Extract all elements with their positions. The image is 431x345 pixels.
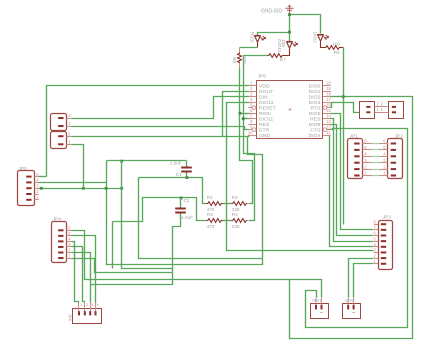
wire C2 top rail to R3 (113, 198, 207, 222)
svg-text:R5: R5 (232, 57, 237, 63)
junction C1 rail tap (120, 160, 123, 163)
JP9 pin 16 (RTS) (327, 107, 331, 109)
IC JP9 (XBee module) (257, 81, 323, 139)
svg-text:R3: R3 (207, 212, 213, 217)
wire DIO2 LED to R6 (321, 42, 325, 48)
resistor R5 (238, 53, 242, 64)
wire JP7 pin1 to DTR (72, 127, 249, 130)
svg-text:DIO2: DIO2 (309, 94, 321, 100)
svg-text:16: 16 (326, 102, 331, 107)
wire JP8 pin1 down (72, 145, 84, 189)
JP9 pin 6 (RSSI) (248, 113, 256, 115)
svg-text:2: 2 (36, 189, 39, 194)
wire JP1-JP2 row 3 (372, 162, 380, 164)
wire jumper link pins (375, 107, 389, 113)
svg-text:1: 1 (364, 171, 367, 176)
svg-text:4: 4 (68, 237, 71, 242)
svg-text:DIO1: DIO1 (309, 89, 321, 95)
wire left drop (112, 222, 114, 269)
resistor R3 (207, 219, 223, 223)
svg-text:6: 6 (364, 139, 367, 144)
svg-text:R6: R6 (334, 50, 340, 55)
wire JP5 pin3 rail (39, 188, 122, 190)
svg-text:DTR: DTR (259, 127, 270, 133)
svg-text:6: 6 (383, 139, 386, 144)
wire C1 rail down-right (139, 178, 263, 259)
wire JP1-JP2 row 1 (372, 175, 380, 177)
svg-text:1: 1 (250, 80, 253, 85)
svg-text:RSSI: RSSI (249, 32, 254, 43)
wire JP4 pin5 to JP6 pin4 (72, 236, 96, 303)
junction JP8 pin1 tap (82, 187, 85, 190)
svg-text:C2: C2 (184, 198, 190, 203)
JP9 pin 4 (DIO12) (248, 102, 256, 104)
svg-text:3: 3 (36, 183, 39, 188)
resistor R4 (232, 219, 248, 223)
svg-text:14: 14 (326, 113, 331, 118)
JP9 pin 17 (DIO3) (323, 102, 331, 104)
relay K2 (343, 304, 361, 319)
wire JP3 pin1 to K2 right (354, 264, 374, 298)
svg-text:DIO0: DIO0 (309, 83, 321, 89)
svg-text:JP1: JP1 (350, 133, 359, 139)
capacitor C2 (175, 208, 186, 214)
svg-text:6: 6 (68, 226, 71, 231)
svg-text:18: 18 (326, 91, 331, 96)
svg-text:JP2: JP2 (395, 133, 404, 139)
wire DOUT down (223, 92, 251, 137)
wire R3 to R4 (222, 220, 232, 222)
JP9 pin 2 (DOUT) (248, 91, 256, 93)
wire JP4 pin2 to JP6 pin3 (72, 253, 91, 303)
svg-text:1: 1 (68, 140, 71, 145)
svg-text:GND-ISO: GND-ISO (261, 9, 283, 15)
svg-text:13: 13 (326, 119, 331, 124)
wire R5 to RSSI pin and R2 (240, 69, 253, 204)
svg-text:G5V1: G5V1 (312, 298, 321, 302)
wire R5 bottom lead (239, 64, 241, 69)
svg-text:4: 4 (383, 152, 386, 157)
svg-text:JP3: JP3 (383, 214, 392, 220)
junction C1 riser tap (120, 187, 123, 190)
svg-text:RES: RES (259, 122, 270, 128)
connector JP1 (348, 139, 363, 179)
svg-text:3: 3 (250, 91, 253, 96)
JP9 pin 5 (RESET) (248, 107, 252, 109)
svg-text:2: 2 (377, 102, 380, 107)
wire R6 down to JP3 pin 8 (343, 48, 345, 225)
junction C1 bottom (186, 176, 189, 179)
jumper SJ1 (left pad box) (360, 102, 375, 119)
svg-text:JP9: JP9 (258, 73, 267, 79)
svg-text:DIO11: DIO11 (259, 116, 273, 122)
svg-text:R4: R4 (232, 212, 238, 217)
wire C1 bottom lead (186, 173, 188, 178)
resistor R7 (268, 54, 284, 58)
svg-text:DIO12: DIO12 (259, 100, 274, 106)
svg-text:DIO4: DIO4 (309, 133, 321, 139)
svg-text:8: 8 (250, 119, 253, 124)
wire R1 to R2 (222, 203, 232, 205)
JP9 pin 12 (CTS) (327, 129, 331, 131)
svg-text:G5V2: G5V2 (345, 298, 354, 302)
svg-text:4: 4 (364, 152, 367, 157)
svg-text:2: 2 (86, 303, 88, 307)
wire R7 to DIO11 pin and R4 (244, 56, 268, 221)
wire junction to DIO11 LED (289, 33, 291, 42)
svg-text:3: 3 (373, 248, 376, 253)
svg-text:DOUT: DOUT (259, 89, 273, 95)
wire DIO11 LED to R7 (284, 49, 290, 56)
svg-text:5: 5 (373, 236, 376, 241)
wire CTS to relay K1 left (306, 129, 408, 328)
svg-text:JP4: JP4 (53, 216, 62, 222)
wire to JP9 DIO11 pin (244, 118, 251, 120)
svg-text:10: 10 (248, 130, 253, 135)
wire JP4 pin1 rail (72, 259, 173, 273)
svg-text:6: 6 (373, 231, 376, 236)
svg-text:RESET: RESET (259, 105, 276, 111)
wire DIO2 net to relay K1 right (290, 97, 413, 339)
svg-text:JP6: JP6 (67, 314, 72, 322)
svg-text:2: 2 (68, 113, 71, 118)
JP9 pin 14 (RES) (323, 118, 331, 120)
wire C1 bottom rail to R1 (139, 178, 207, 204)
svg-text:4: 4 (250, 97, 253, 102)
wire R5 top lead (239, 48, 241, 53)
wire JP9 pin18 to DIO2 net (331, 96, 344, 98)
capacitor C1 (181, 167, 192, 173)
JP9 pin 19 (DIO1) (323, 91, 331, 93)
junction DIO2 branch (342, 95, 345, 98)
svg-text:RTS: RTS (311, 105, 322, 111)
svg-text:15: 15 (326, 108, 331, 113)
svg-text:1: 1 (68, 121, 71, 126)
connector JP2 (388, 139, 403, 179)
JP9 pin 20 (DIO0) (323, 85, 331, 87)
wire JP4 pin6 to DIO2 net (72, 231, 290, 280)
svg-text:DIO3: DIO3 (309, 100, 321, 106)
JP9 pin 11 (DIO4) (323, 135, 331, 137)
svg-text:RSSI: RSSI (259, 111, 271, 117)
wire DIO5 to JP3 pin7 (331, 114, 374, 230)
wire GND down-around (107, 137, 263, 265)
svg-text:8: 8 (373, 219, 376, 224)
svg-text:2: 2 (383, 164, 386, 169)
connector JP8 (51, 132, 67, 149)
svg-text:100: 100 (242, 56, 247, 64)
wire C2 bottom to JP6 (91, 214, 181, 285)
svg-text:17: 17 (326, 97, 331, 102)
svg-text:1.0uF: 1.0uF (181, 215, 193, 220)
svg-text:11: 11 (326, 130, 331, 135)
svg-text:RES: RES (310, 116, 321, 122)
connector JP4 (52, 222, 67, 263)
relay K1 (311, 304, 329, 319)
wire JP3 pin2 to K2 left (349, 259, 374, 298)
junction LED branch (288, 31, 291, 34)
wire JP5 pin5 stub wire (39, 176, 47, 178)
JP9 pin 13 (DIO9) (323, 124, 331, 126)
JP9 pin 1 (VDD) (248, 85, 256, 87)
wire JP1-JP2 row 2 (372, 169, 380, 171)
connector JP3 (379, 221, 393, 270)
LED RSSI LED (255, 36, 266, 43)
JP9 pin 9 (DTR) (248, 129, 252, 131)
wire GND-ISO to LED junction (289, 15, 291, 33)
wire RSSI LED to R5 (240, 47, 258, 49)
svg-text:R1: R1 (207, 195, 213, 200)
svg-text:R7: R7 (280, 57, 286, 62)
wire JP1-JP2 row 6 (372, 143, 380, 145)
svg-text:DIN: DIN (259, 94, 268, 100)
svg-text:1.0uF: 1.0uF (170, 160, 182, 165)
wire R6 right lead (340, 47, 344, 49)
svg-text:1: 1 (381, 107, 384, 112)
wire JP5 pin4 to GND riser (39, 182, 107, 184)
junction DIO11 pin (242, 117, 245, 120)
wire JP1-JP2 row 5 (372, 149, 380, 151)
wire DIN to JP7 pin2 (72, 97, 251, 119)
resistor R1 (207, 202, 223, 206)
junction GND riser tap (105, 187, 108, 190)
wire DIO4 to JP3 pin4 (330, 136, 374, 247)
jumper SJ2 (right pad box) (389, 102, 404, 119)
svg-text:100: 100 (332, 42, 340, 47)
svg-text:CTS: CTS (310, 127, 321, 133)
wire GND-ISO to DIO2 LED (290, 15, 321, 34)
svg-text:1: 1 (383, 171, 386, 176)
JP9 origin cross (289, 108, 292, 111)
JP9 pin 3 (DIN) (248, 96, 256, 98)
wire C2 top lead (180, 198, 182, 208)
connector JP7 (51, 114, 67, 131)
svg-text:12: 12 (326, 124, 331, 129)
wire C1 top lead (186, 161, 188, 167)
svg-text:GND: GND (259, 133, 271, 139)
svg-text:2: 2 (381, 102, 384, 107)
connector JP6 (73, 309, 102, 324)
svg-text:R2: R2 (232, 195, 238, 200)
ground GND-ISO (285, 5, 293, 15)
JP9 pin 10 (GND) (248, 135, 256, 137)
svg-text:2: 2 (373, 253, 376, 258)
wire JP4 pin4 to JP6 pin1 (72, 242, 79, 303)
wire JP8 pin2 to GND pin (72, 136, 251, 137)
JP9 pin 18 (DIO2) (323, 96, 331, 98)
wire DIO9 to JP3 pin6 (331, 125, 374, 236)
wire JP1-JP2 row 4 (372, 156, 380, 158)
svg-text:7: 7 (250, 113, 253, 118)
svg-text:C1: C1 (176, 172, 182, 177)
wire RES to JP3 pin5 (331, 119, 374, 242)
svg-text:20: 20 (326, 80, 331, 85)
svg-text:1: 1 (377, 107, 380, 112)
resistor R2 (232, 202, 248, 206)
connector JP5 (18, 171, 35, 206)
svg-text:2: 2 (364, 164, 367, 169)
svg-text:2: 2 (250, 86, 253, 91)
wire junction to RSSI LED (258, 33, 290, 36)
wire RTS to jumper A (331, 103, 360, 113)
svg-text:19: 19 (326, 86, 331, 91)
wire RSSI LED lead (257, 43, 259, 48)
svg-text:470: 470 (207, 224, 215, 229)
JP9 pin 15 (DIO5) (323, 113, 331, 115)
JP9 pin 7 (DIO11) (248, 118, 256, 120)
svg-text:1: 1 (68, 253, 71, 258)
LED DIO11 LED (287, 42, 298, 49)
LED DIO2 LED (318, 35, 329, 42)
svg-text:1: 1 (80, 303, 82, 307)
junction JP5 pin3 (40, 187, 43, 190)
svg-text:JP5: JP5 (19, 166, 28, 172)
wire to JP9 RSSI pin (240, 113, 251, 115)
svg-text:330: 330 (232, 224, 240, 229)
junction RSSI pin (239, 112, 242, 115)
wire C1 top rail (107, 160, 187, 162)
svg-text:3: 3 (91, 303, 93, 307)
wire VDD: JP5 pin5 to JP9 VDD (47, 86, 251, 177)
svg-text:VDD: VDD (259, 83, 270, 89)
svg-text:DIO11: DIO11 (277, 39, 282, 52)
wire tap down to C2 net (122, 161, 173, 269)
svg-text:2: 2 (68, 248, 71, 253)
junction under GND-ISO (288, 13, 291, 16)
wire DIO12 to JP3 pin3 (227, 103, 374, 251)
JP9 pin 8 (RES) (248, 124, 256, 126)
junction C2 top (180, 197, 183, 200)
wire JP4 pin3 to JP6 pin2 (72, 247, 85, 303)
svg-text:DIO9: DIO9 (309, 122, 321, 128)
svg-text:DIO5: DIO5 (309, 111, 321, 117)
resistor R6 (325, 46, 341, 50)
svg-text:2: 2 (68, 131, 71, 136)
svg-text:4: 4 (97, 303, 99, 307)
svg-text:DIO2: DIO2 (313, 32, 318, 43)
